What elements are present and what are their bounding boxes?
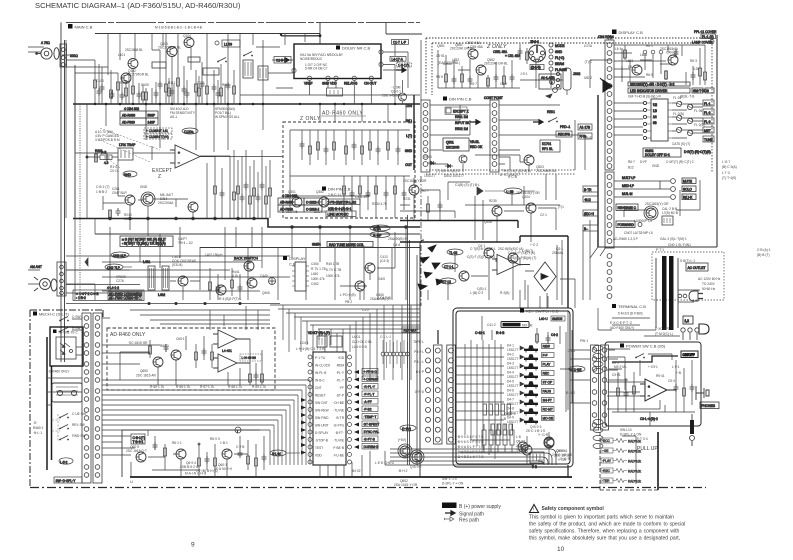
label Q602 xyxy=(394,438,422,487)
svg-text:OUT: OUT xyxy=(405,163,412,167)
svg-text:R239: R239 xyxy=(489,199,497,203)
svg-text:4 CB4·362: 4 CB4·362 xyxy=(282,194,297,198)
svg-text:−: − xyxy=(178,161,180,165)
wire: bus mesh y205-225 xyxy=(400,196,560,240)
svg-text:Q501: Q501 xyxy=(446,141,454,145)
svg-text:GAL·2 (S)L·T(M)·1: GAL·2 (S)L·T(M)·1 xyxy=(660,237,687,241)
label WAIT SEQ note xyxy=(218,293,356,301)
svg-text:R·4·B: R·4·B xyxy=(496,331,504,335)
mini ic block xyxy=(530,452,544,469)
svg-text:+·C9·1: +·C9·1 xyxy=(648,365,658,369)
IF transformer T101 xyxy=(243,60,253,78)
node dots on bus y104 xyxy=(94,34,396,106)
svg-text:2SC1815(Y)·GR: 2SC1815(Y)·GR xyxy=(645,202,669,206)
EXCEPT-Z AM IF vertical feeds xyxy=(200,150,272,218)
transistor Q552 2SC2240 xyxy=(476,65,486,75)
resistor R-B 4.9 xyxy=(86,151,118,166)
wire: main vertical bus left xyxy=(61,22,65,362)
label LED CH6 xyxy=(352,461,395,473)
svg-text:S·B(T)·L·1: S·B(T)·L·1 xyxy=(680,259,695,263)
svg-text:DOLBY NR C.B: DOLBY NR C.B xyxy=(342,46,370,51)
svg-text:DIN PIN C.B: DIN PIN C.B xyxy=(328,187,351,192)
svg-text:EXCEPT Z: EXCEPT Z xyxy=(453,110,469,114)
svg-text:L4·01: L4·01 xyxy=(352,335,360,339)
svg-text:CAT5 (S)·(T): CAT5 (S)·(T) xyxy=(672,142,690,146)
svg-text:4·L4·1·2: 4·L4·1·2 xyxy=(107,286,119,290)
wire: left page bottom thick border xyxy=(130,476,572,478)
svg-text:(T)·T·4(S): (T)·T·4(S) xyxy=(722,176,736,180)
extra am strings xyxy=(233,150,268,218)
oval GND label xyxy=(123,171,137,177)
bar 2SC1815Y-GR strip xyxy=(628,82,690,87)
pull up row 3 xyxy=(601,458,641,464)
label c/r notes mid xyxy=(436,169,531,187)
wire: drops from bus y104 xyxy=(75,104,406,152)
Z only internals caps/resistors xyxy=(290,130,410,210)
svg-text:B–: B– xyxy=(584,227,588,231)
dolby out parts xyxy=(228,339,264,385)
svg-text:2SC·1815·AR: 2SC·1815·AR xyxy=(136,374,157,378)
svg-text:SCHEMATIC DIAGRAM–1 (AD-F360/S: SCHEMATIC DIAGRAM–1 (AD-F360/S15U, AD-R4… xyxy=(35,1,241,10)
svg-text:4.9: 4.9 xyxy=(104,161,109,165)
wire: q201 wiring xyxy=(103,160,193,218)
svg-text:R502 1M: R502 1M xyxy=(455,127,468,131)
svg-text:AS-1: AS-1 xyxy=(170,115,177,119)
wire: upper fan into mesh xyxy=(130,306,270,330)
connector circle with cross CN4 xyxy=(269,278,276,285)
svg-text:MULT·LP: MULT·LP xyxy=(622,176,635,180)
svg-text:·PL·T: ·PL·T xyxy=(336,379,344,383)
svg-text:T: T xyxy=(237,430,239,434)
svg-text:IN·B·C: IN·B·C xyxy=(315,379,325,383)
svg-text:C276: C276 xyxy=(116,279,124,283)
label Q801 xyxy=(538,449,570,463)
pull up row 5 xyxy=(601,478,641,484)
svg-text:Q4·6: Q4·6 xyxy=(393,243,400,247)
label display ic pins xyxy=(311,262,341,286)
op-amp U201 HA1 xyxy=(170,145,215,168)
LED D605 xyxy=(676,127,682,133)
connector strip CN902 xyxy=(601,345,609,430)
small circles row xyxy=(643,50,663,78)
key row glyph column (9 keys) xyxy=(524,345,538,424)
wire: mid right vertical bus pair xyxy=(414,95,598,247)
svg-text:B·U·S: B·U·S xyxy=(566,391,575,395)
wire: link to dolby box xyxy=(240,47,420,95)
svg-text:10k: 10k xyxy=(124,217,130,221)
svg-text:·CH·BE: ·CH·BE xyxy=(333,401,344,405)
svg-text:GM·T·HO·B (S)·B(L)·R: GM·T·HO·B (S)·B(L)·R xyxy=(628,95,661,99)
antenna jack J101 xyxy=(36,48,59,60)
small comps above key col xyxy=(475,316,566,412)
svg-text:C·1022·J: C·1022·J xyxy=(306,201,320,205)
svg-text:R5·5: R5·5 xyxy=(436,75,443,79)
svg-text:2SA490(B)·R: 2SA490(B)·R xyxy=(388,237,408,241)
label sensitivity notes xyxy=(170,107,240,119)
dotted box transformer xyxy=(652,252,724,300)
svg-text:CN·OUT: CN·OUT xyxy=(364,82,376,86)
transistor Q407 xyxy=(216,285,226,295)
svg-text:REW: REW xyxy=(543,345,550,349)
label C.B right lower xyxy=(757,248,771,257)
svg-text:FL/ASW: FL/ASW xyxy=(555,68,567,72)
svg-text:L·8: L·8 xyxy=(516,435,521,439)
transistor Q104 xyxy=(184,38,194,48)
svg-text:L6·1: L6·1 xyxy=(615,47,622,51)
boxed label SW DISPLAY xyxy=(54,477,82,483)
transistor Q203 xyxy=(188,202,198,212)
svg-text:AD·R460 ONLY: AD·R460 ONLY xyxy=(110,332,146,338)
label Q301/Q302 values xyxy=(286,190,387,214)
svg-text:+DD: +DD xyxy=(338,356,345,360)
transistor Q233 xyxy=(459,271,469,281)
svg-text:·TU·NE: ·TU·NE xyxy=(333,409,344,413)
svg-text:146P: 146P xyxy=(148,121,155,125)
svg-text:B4·02: B4·02 xyxy=(352,469,361,473)
svg-text:1SS177: 1SS177 xyxy=(507,366,519,370)
label POWER SW C.B xyxy=(620,344,666,349)
svg-text:U: U xyxy=(130,479,133,484)
wire: strip links xyxy=(560,310,640,410)
svg-text:2SC·1815·G·T: 2SC·1815·G·T xyxy=(126,449,147,453)
svg-text:1SS177: 1SS177 xyxy=(507,375,519,379)
MCU right boxed labels xyxy=(362,369,379,450)
svg-text:(C4·3): (C4·3) xyxy=(380,259,389,263)
display block IC vertical rect xyxy=(292,262,309,291)
legend note box S xyxy=(120,236,173,247)
svg-text:T·(S)(B)·P(B)(A)·(T): T·(S)(B)·P(B)(A)·(T) xyxy=(508,256,536,260)
svg-text:L101: L101 xyxy=(118,53,125,57)
svg-text:BEAM: BEAM xyxy=(555,62,564,66)
svg-text:2·B·0·5 S·L·F·2·7·B: 2·B·0·5 S·L·F·2·7·B xyxy=(455,435,483,439)
wire: op-amp out extend xyxy=(215,156,283,158)
label driver note xyxy=(628,95,694,99)
transistor Q502 xyxy=(459,155,467,163)
z only mid caps xyxy=(443,44,529,70)
svg-text:L·T·3: L·T·3 xyxy=(722,171,730,175)
transistor Q650 xyxy=(153,357,163,367)
svg-text:DUREM·B: DUREM·B xyxy=(364,445,379,449)
svg-text:MUL·M: MUL·M xyxy=(622,192,633,196)
svg-text:100K 47k: 100K 47k xyxy=(326,274,340,278)
svg-text:FL·2: FL·2 xyxy=(704,111,711,115)
svg-text:TEST: TEST xyxy=(315,446,323,450)
diode labels column xyxy=(507,344,519,425)
svg-text:R·69·1.7k: R·69·1.7k xyxy=(252,385,266,389)
svg-text:A–MP: A–MP xyxy=(373,234,382,238)
svg-text:·F·B2: ·F·B2 xyxy=(364,408,372,412)
svg-text:+ C10854T 141: + C10854T 141 xyxy=(146,129,168,133)
svg-text:300Ω: 300Ω xyxy=(70,54,78,58)
svg-text:L40·U: L40·U xyxy=(539,317,548,321)
svg-text:safety specifications. There: safety specifications. Therefore, when r… xyxy=(529,529,680,535)
svg-text:1SS177: 1SS177 xyxy=(507,393,519,397)
svg-text:L4·451: L4·451 xyxy=(222,349,232,353)
svg-text:R111: R111 xyxy=(168,81,175,85)
svg-text:Z ONLY: Z ONLY xyxy=(300,116,321,122)
svg-text:C·1016·J: C·1016·J xyxy=(306,208,320,212)
transistor Q605 xyxy=(136,452,146,462)
svg-text:D·SPL·Y·+·ON: D·SPL·Y·+·ON xyxy=(442,482,464,486)
transistor Q604 xyxy=(222,449,232,459)
svg-text:L·(B)·D·2: L·(B)·D·2 xyxy=(470,291,484,295)
svg-text:14: 14 xyxy=(653,115,657,119)
boxed label L4 17A xyxy=(390,56,406,61)
wire: lower-right diagonals xyxy=(590,180,700,258)
svg-text:·A·FF: ·A·FF xyxy=(364,400,372,404)
connector CN502 strip mid xyxy=(484,96,503,172)
transformer T901 dark bars xyxy=(656,256,678,330)
svg-text:CN07 LA733·MP·L5: CN07 LA733·MP·L5 xyxy=(624,231,653,235)
svg-text:100K 47k: 100K 47k xyxy=(311,277,325,281)
svg-text:FL(·C): FL(·C) xyxy=(555,56,564,60)
switch S605 xyxy=(59,436,69,441)
oval TP01 xyxy=(477,187,535,195)
svg-text:·ST·P: ·ST·P xyxy=(336,394,344,398)
svg-text:MED·LP: MED·LP xyxy=(622,184,634,188)
svg-text:FL·1: FL·1 xyxy=(704,102,711,106)
svg-text:(T)·C: (T)·C xyxy=(585,60,593,64)
wire: vertical drops from top border xyxy=(108,34,305,105)
wire: bus y247 xyxy=(200,247,420,249)
svg-text:B12: B12 xyxy=(628,166,634,170)
svg-text:IN·PL·B: IN·PL·B xyxy=(315,371,326,375)
svg-text:LED INDICATOR DRIVER: LED INDICATOR DRIVER xyxy=(630,89,668,93)
svg-text:C9·4: C9·4 xyxy=(668,379,675,383)
transistor Q406 xyxy=(247,278,257,288)
wire: left page top border xyxy=(66,21,420,23)
transistor Q411 xyxy=(355,281,365,291)
transistor Q410 xyxy=(365,263,375,273)
label small box LT59 xyxy=(215,40,240,47)
wire: bottom-left fan horizontals upper xyxy=(66,256,290,291)
svg-text:FWD·SW: FWD·SW xyxy=(72,434,85,438)
label tuning caps xyxy=(96,79,230,87)
svg-text:R231: R231 xyxy=(403,197,411,201)
svg-text:REC: REC xyxy=(543,372,550,376)
transistor Q603 pair E xyxy=(410,450,424,464)
svg-text:·STOP·B: ·STOP·B xyxy=(315,439,328,443)
dashed boxed label 1B17h xyxy=(397,63,412,68)
transistor Q401 xyxy=(178,276,188,286)
LED D603 xyxy=(676,115,682,121)
svg-text:MD·2: MD·2 xyxy=(584,76,592,80)
svg-text:GM505: GM505 xyxy=(552,317,563,321)
svg-text:R·67·1.7k: R·67·1.7k xyxy=(200,385,214,389)
oval label C120b xyxy=(182,128,198,134)
svg-text:·FU·BE: ·FU·BE xyxy=(333,454,344,458)
label Q201 group xyxy=(112,185,174,221)
label SW L10 DISPLAY ON xyxy=(620,428,642,437)
svg-text:RESET: RESET xyxy=(315,394,326,398)
svg-text:L(T): L(T) xyxy=(406,134,412,138)
diode D501 xyxy=(428,161,436,165)
label diodes xyxy=(424,155,464,178)
svg-text:this symbol, make absolutely s: this symbol, make absolutely sure that y… xyxy=(529,536,680,542)
svg-text:D4·4: D4·4 xyxy=(507,371,514,375)
svg-text:1·B·B·2: 1·B·B·2 xyxy=(96,190,107,194)
wire: bus y218 xyxy=(73,219,420,228)
oval label C120 xyxy=(274,57,291,64)
svg-text:+ C51 45A: + C51 45A xyxy=(505,54,521,58)
svg-text:PHONES: PHONES xyxy=(702,404,715,408)
label Q101 values xyxy=(118,34,191,77)
svg-text:AD–F360 C(S)30·52·7: AD–F360 C(S)30·52·7 xyxy=(109,296,141,300)
label R941 xyxy=(656,374,675,383)
svg-text:2SC1815(Y)·GR: 2SC1815(Y)·GR xyxy=(403,179,427,183)
svg-text:+·FF·B·D: +·FF·B·D xyxy=(364,370,378,374)
svg-text:INPUT BK: INPUT BK xyxy=(455,121,471,125)
wire: main horizontal bus y104 xyxy=(73,103,420,105)
dolby box pin stubs xyxy=(292,50,383,86)
wire: q222 links + thick bus xyxy=(497,174,556,242)
svg-text:(+·5V): (+·5V) xyxy=(402,427,411,431)
dolby amp passives xyxy=(120,336,214,385)
box ON/OFF xyxy=(681,351,698,358)
svg-text:R6·7: R6·7 xyxy=(628,160,635,164)
svg-text:R6·0·3: R6·0·3 xyxy=(210,437,220,441)
svg-text:Res path: Res path xyxy=(459,518,479,524)
label Q610/Q611 xyxy=(500,412,572,461)
wire: key sw bottom drop xyxy=(438,330,568,477)
switch S501 xyxy=(548,118,558,123)
svg-text:RE01: RE01 xyxy=(547,110,555,114)
label LA3000 xyxy=(634,207,678,223)
svg-text:GND: GND xyxy=(140,185,148,189)
transistor Q301 2SC745 xyxy=(292,197,302,207)
AC outlet box xyxy=(686,263,708,271)
svg-text:!: ! xyxy=(533,508,534,514)
svg-text:SYNC·PAL: SYNC·PAL xyxy=(364,430,380,434)
oval LED mech xyxy=(59,458,73,465)
op-amp U651 upper xyxy=(213,330,250,348)
wire: right box bottom border xyxy=(598,246,717,248)
wire: MCU bottom drops xyxy=(320,451,400,477)
svg-text:CNT: CNT xyxy=(315,386,322,390)
oval CN2-1LP xyxy=(111,252,129,258)
oval CN TL02 xyxy=(440,249,463,284)
svg-text:PULL UP: PULL UP xyxy=(637,446,658,452)
svg-text:AC OUTLET: AC OUTLET xyxy=(688,266,706,270)
node dots bus y218 xyxy=(109,217,408,228)
op-amp U652 lower xyxy=(213,354,250,372)
label AC voltage xyxy=(698,277,721,291)
svg-text:C·1 L·J: C·1 L·J xyxy=(380,335,391,339)
dark box MOMENTARY MODE xyxy=(487,322,533,328)
transistor Q551 2SC2240 xyxy=(468,49,478,59)
extra front-end verticals xyxy=(97,64,226,104)
FM front-end passives cluster xyxy=(94,45,236,104)
svg-text:B·L·P: B·L·P xyxy=(416,370,424,374)
wire: pwr bottom xyxy=(612,405,695,426)
label K1701 xyxy=(540,140,560,152)
svg-text:(B)SL·T·B: (B)SL·T·B xyxy=(680,95,694,99)
svg-text:CLO·CK C·BL: CLO·CK C·BL xyxy=(352,340,372,344)
label coil notes xyxy=(172,253,223,267)
svg-text:2SC·945·BR: 2SC·945·BR xyxy=(382,94,401,98)
transistor Q610 LA3000 xyxy=(644,206,658,220)
svg-text:1·B·17h: 1·B·17h xyxy=(398,63,410,67)
parts table 4CB4-302 xyxy=(120,107,158,125)
label led extra xyxy=(615,44,653,77)
wire: din pin wiring xyxy=(430,105,585,164)
svg-text:·B·H·2: ·B·H·2 xyxy=(398,469,408,473)
connector col P1 xyxy=(82,313,91,483)
connector CN400 strip outer xyxy=(426,348,431,442)
switch S601 xyxy=(59,317,69,322)
svg-text:·TER: ·TER xyxy=(602,479,610,483)
label note right of box xyxy=(178,237,193,245)
svg-text:CH4: CH4 xyxy=(406,104,413,108)
svg-text:LINE MOR·EC: LINE MOR·EC xyxy=(328,213,350,217)
svg-text:D4·2: D4·2 xyxy=(507,353,514,357)
svg-text:CONT PONT: CONT PONT xyxy=(484,96,503,100)
small box 1-2 xyxy=(683,316,693,324)
svg-text:K1701: K1701 xyxy=(542,142,551,146)
svg-text:C450: C450 xyxy=(311,262,319,266)
oval label c-ube xyxy=(569,366,585,372)
svg-text:Q104: Q104 xyxy=(183,34,191,38)
svg-text:2SC2668 BL: 2SC2668 BL xyxy=(125,48,143,52)
svg-text:(T·M·2(C)·L): (T·M·2(C)·L) xyxy=(655,332,673,336)
svg-text:03: 03 xyxy=(653,121,657,125)
connector pin row CN405 xyxy=(381,340,409,368)
svg-text:FL·1 (S): FL·1 (S) xyxy=(702,35,714,39)
svg-text:·L·B: ·L·B xyxy=(500,417,506,421)
svg-text:(AD·F460 ONLY): (AD·F460 ONLY) xyxy=(610,326,634,330)
transistor Q503 2SC2480R xyxy=(524,155,534,165)
svg-text:A 75Ω: A 75Ω xyxy=(41,41,50,45)
wire: pwr wiring xyxy=(607,349,672,409)
svg-text:AD-F360: AD-F360 xyxy=(122,121,135,125)
wire: top-left entry wires xyxy=(28,41,118,73)
svg-text:L·N·4·(B)·C·1·T·2·B: L·N·4·(B)·C·1·T·2·B xyxy=(296,347,325,351)
svg-text:−: − xyxy=(648,394,650,398)
wire: page boundary dash verticals xyxy=(408,176,422,465)
svg-text:KEY SWITCH C.B: KEY SWITCH C.B xyxy=(526,309,559,314)
svg-text:(B)·C·3(A): (B)·C·3(A) xyxy=(722,165,737,169)
legend black box: B(+) power supply xyxy=(442,503,457,509)
svg-text:DIN PIN C.B: DIN PIN C.B xyxy=(449,97,472,102)
svg-text:VD·KT·(S)·L(T): VD·KT·(S)·L(T) xyxy=(308,331,330,335)
svg-text:B·TR: B·TR xyxy=(584,188,592,192)
transistor Q651 xyxy=(171,350,181,360)
svg-text:D4·3: D4·3 xyxy=(507,362,514,366)
svg-text:·R·PL·Y: ·R·PL·Y xyxy=(364,385,376,389)
svg-text:CN·1: CN·1 xyxy=(568,349,576,353)
svg-text:R6·3: R6·3 xyxy=(690,59,697,63)
IF transformer T102 xyxy=(258,66,268,80)
dashed link lines xyxy=(52,414,60,442)
svg-text:the safety of the product, and: the safety of the product, and which are… xyxy=(529,522,685,528)
svg-text:U2: U2 xyxy=(653,103,657,107)
svg-text:PB·1·L: PB·1·L xyxy=(414,360,424,364)
legend signal path arrow xyxy=(445,511,455,515)
wire: mid column verticals y218-247 xyxy=(130,218,252,247)
svg-text:(T)1: (T)1 xyxy=(558,205,564,209)
svg-text:R6·5: R6·5 xyxy=(646,73,653,77)
power entry component xyxy=(690,414,695,446)
svg-text:·B·FTG: ·B·FTG xyxy=(333,424,344,428)
svg-text:(+5V): (+5V) xyxy=(398,438,406,442)
osc coil L402 xyxy=(158,266,169,297)
svg-text:5·M·2/3 (D·F360): 5·M·2/3 (D·F360) xyxy=(618,312,643,316)
wire: pullup bracket xyxy=(622,436,636,484)
z only right internals xyxy=(438,50,521,88)
svg-text:C452: C452 xyxy=(311,282,319,286)
connector CN601 strip xyxy=(598,35,614,298)
svg-text:R45 1.7B: R45 1.7B xyxy=(326,262,339,266)
